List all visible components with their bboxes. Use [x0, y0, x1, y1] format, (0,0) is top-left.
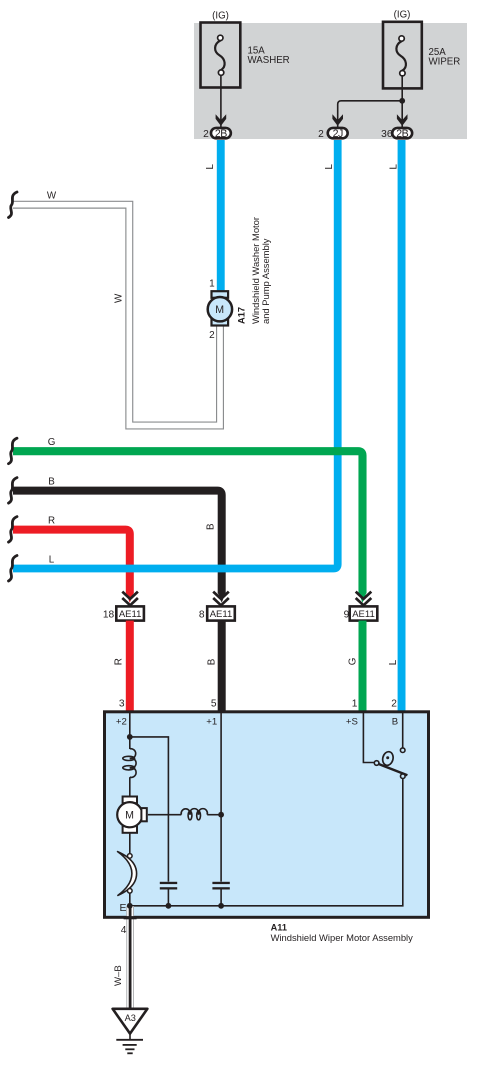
- svg-text:18: 18: [103, 610, 115, 621]
- park switch contact top: [400, 748, 405, 753]
- washer motor A17: [208, 291, 232, 325]
- wire branch to connector 2J: [338, 101, 403, 128]
- svg-text:WIPER: WIPER: [429, 57, 461, 68]
- inductor coil horizontal: [181, 809, 221, 820]
- svg-text:A3: A3: [125, 1013, 136, 1023]
- wire L blue from 2J to left connector: [13, 140, 338, 569]
- svg-text:L: L: [389, 164, 400, 170]
- label L horizontal: [49, 555, 55, 566]
- junction node at +2: [127, 734, 133, 740]
- wire switch to ground rail: [130, 779, 403, 906]
- pin +1 label: [206, 716, 217, 727]
- svg-text:8: 8: [199, 610, 205, 621]
- svg-text:A17: A17: [237, 307, 247, 324]
- svg-text:2: 2: [209, 330, 215, 341]
- junction dot at fuse 25A output: [399, 98, 405, 104]
- svg-text:B: B: [206, 658, 217, 665]
- wiper motor assembly A11 box: [105, 712, 429, 918]
- connector arrow 2B right: [397, 114, 408, 126]
- label (IG) left: [212, 11, 229, 22]
- label G at pin 1: [348, 658, 359, 666]
- svg-text:R: R: [48, 516, 55, 527]
- svg-text:9: 9: [344, 610, 350, 621]
- label G horizontal: [48, 437, 56, 448]
- label L on 2J drop: [324, 164, 335, 170]
- connector AE11 at black wire: [207, 592, 235, 621]
- park switch contact bottom: [401, 774, 406, 779]
- svg-text:AE11: AE11: [352, 609, 375, 620]
- wire from pin +2 down: [129, 713, 131, 749]
- pin 2 label of A11: [391, 698, 397, 709]
- wire motor to cam contact: [129, 833, 131, 854]
- svg-text:+2: +2: [116, 716, 127, 727]
- svg-text:B: B: [392, 716, 398, 727]
- junction node capacitor 2 rail: [218, 903, 224, 909]
- pin 2 label of 2B left: [203, 129, 209, 140]
- wire cam to ground rail: [129, 893, 131, 906]
- wire G green: [13, 451, 367, 603]
- wire from pin +1 down to capacitor 2: [220, 713, 222, 882]
- wire B black AE11 to A11 pin 5: [218, 621, 226, 711]
- svg-text:G: G: [48, 437, 56, 448]
- pin 1 label of A17: [209, 279, 215, 290]
- ground connector A3 triangle: [113, 1009, 148, 1034]
- label B at pin 5: [206, 658, 217, 665]
- park switch contact left: [374, 761, 379, 766]
- pin 3 label: [119, 698, 125, 709]
- svg-text:M: M: [215, 304, 224, 316]
- svg-text:AE11: AE11: [210, 609, 233, 620]
- wire W white from left connector to washer motor pin 2: [13, 205, 220, 426]
- label R at pin 3: [113, 658, 124, 665]
- svg-text:4: 4: [121, 925, 127, 936]
- pin 18 label of AE11: [103, 610, 115, 621]
- fuse 15A WASHER value label: [248, 46, 290, 67]
- svg-text:2: 2: [203, 129, 209, 140]
- connector squiggle for wire L: [9, 556, 18, 582]
- label A11: [271, 923, 287, 933]
- fuse 25A WIPER: [383, 22, 422, 89]
- connector arrow 2J: [332, 114, 343, 126]
- label W horizontal: [47, 191, 57, 202]
- svg-text:2J: 2J: [333, 128, 343, 140]
- label B horizontal: [48, 477, 55, 488]
- park switch cam ellipse: [381, 751, 394, 767]
- inductor coil vertical: [123, 749, 136, 797]
- label W-B: [113, 965, 124, 986]
- wire G green AE11 to A11 pin 1: [359, 621, 367, 711]
- svg-text:2B: 2B: [396, 128, 408, 140]
- svg-text:E: E: [119, 903, 126, 914]
- wiper motor M: [117, 797, 147, 833]
- connector AE11 at green wire: [350, 592, 378, 621]
- pin 2 label of 2J: [318, 129, 324, 140]
- svg-text:B: B: [206, 523, 217, 530]
- connector arrow 2B left: [216, 114, 227, 126]
- junction node E: [127, 903, 133, 909]
- wire B black: [13, 491, 226, 603]
- A11 box bottom border patch: [124, 916, 137, 919]
- wire W-B from pin E to ground: [126, 906, 134, 1009]
- svg-text:+1: +1: [206, 716, 217, 727]
- svg-text:1: 1: [352, 698, 358, 709]
- wire L blue from 2B to washer motor A17: [217, 140, 225, 291]
- svg-text:W: W: [47, 191, 57, 202]
- label L on washer feed wire: [205, 164, 216, 170]
- connector oval 2B left: [211, 128, 231, 140]
- pin +S label: [346, 716, 358, 727]
- pin 9 label of AE11: [344, 610, 350, 621]
- pin 8 label of AE11: [199, 610, 205, 621]
- junction node capacitor 1 rail: [166, 903, 172, 909]
- svg-text:B: B: [48, 477, 55, 488]
- fuse 25A WIPER value label: [429, 47, 461, 68]
- label L at top of long blue wire: [389, 164, 400, 170]
- park switch lever: [379, 764, 408, 775]
- connector AE11 at red wire: [116, 592, 144, 621]
- connector squiggle for wire B: [9, 478, 18, 504]
- wire R red AE11 to A11 pin 3: [126, 621, 134, 711]
- svg-text:L: L: [205, 164, 216, 170]
- pin B label: [392, 716, 398, 727]
- label Windshield Washer Motor and Pump Assembly: [250, 217, 271, 324]
- svg-text:W: W: [114, 293, 125, 303]
- svg-text:(IG): (IG): [394, 10, 411, 21]
- wire fuse 15A to connector 2B: [220, 75, 222, 127]
- label (IG) right: [394, 10, 411, 21]
- fuse 15A WASHER: [201, 23, 241, 88]
- pin 4 label: [121, 925, 127, 936]
- junction node coil / +1: [218, 812, 224, 818]
- svg-text:1: 1: [209, 279, 215, 290]
- svg-text:L: L: [388, 659, 399, 665]
- svg-text:R: R: [113, 658, 124, 665]
- pin 2 label of A17: [209, 330, 215, 341]
- svg-text:Windshield Wiper Motor Assembl: Windshield Wiper Motor Assembly: [271, 932, 414, 943]
- pin 36 label of 2B right: [381, 129, 393, 140]
- capacitor C2: [212, 882, 229, 906]
- connector squiggle for wire R: [9, 517, 18, 543]
- svg-text:W–B: W–B: [113, 965, 124, 986]
- capacitor C1: [160, 882, 177, 906]
- wire from pin B stub: [402, 713, 404, 748]
- svg-text:3: 3: [119, 698, 125, 709]
- wire motor to horizontal coil: [148, 814, 181, 816]
- label W vertical: [114, 293, 125, 303]
- svg-text:A11: A11: [271, 923, 287, 933]
- svg-text:WASHER: WASHER: [248, 55, 290, 66]
- wire L blue from 2B right to A11 pin 2: [398, 140, 406, 711]
- svg-text:36: 36: [381, 129, 393, 140]
- label B vertical mid: [206, 523, 217, 530]
- cam crescent: [118, 852, 137, 896]
- svg-text:G: G: [348, 658, 359, 666]
- svg-text:L: L: [49, 555, 55, 566]
- svg-text:2B: 2B: [215, 128, 227, 140]
- pin E label: [119, 903, 126, 914]
- svg-text:+S: +S: [346, 716, 358, 727]
- svg-text:2: 2: [318, 129, 324, 140]
- connector squiggle for wire W: [9, 192, 18, 218]
- svg-text:and Pump Assembly: and Pump Assembly: [260, 238, 271, 324]
- svg-text:(IG): (IG): [212, 11, 229, 22]
- label R horizontal: [48, 516, 55, 527]
- svg-text:M: M: [125, 810, 134, 822]
- connector oval 2J: [328, 128, 348, 140]
- wire branch from +2 node to capacitor 1: [130, 737, 169, 882]
- svg-text:5: 5: [211, 698, 217, 709]
- connector squiggle for wire G: [9, 438, 18, 464]
- wire R red: [13, 530, 134, 603]
- label A17: [237, 307, 247, 324]
- pin +2 label: [116, 716, 127, 727]
- wire from pin +S to park switch: [363, 713, 374, 763]
- label Windshield Wiper Motor Assembly: [271, 932, 414, 943]
- connector oval 2B right: [392, 128, 412, 140]
- ground symbol: [116, 1034, 143, 1054]
- label L at pin 2: [388, 659, 399, 665]
- pin 1 label: [352, 698, 358, 709]
- svg-text:L: L: [324, 164, 335, 170]
- svg-text:2: 2: [391, 698, 397, 709]
- pin 5 label: [211, 698, 217, 709]
- wire fuse 25A down to connector 2B: [401, 76, 403, 128]
- power source band: [194, 23, 467, 139]
- svg-text:AE11: AE11: [119, 609, 142, 620]
